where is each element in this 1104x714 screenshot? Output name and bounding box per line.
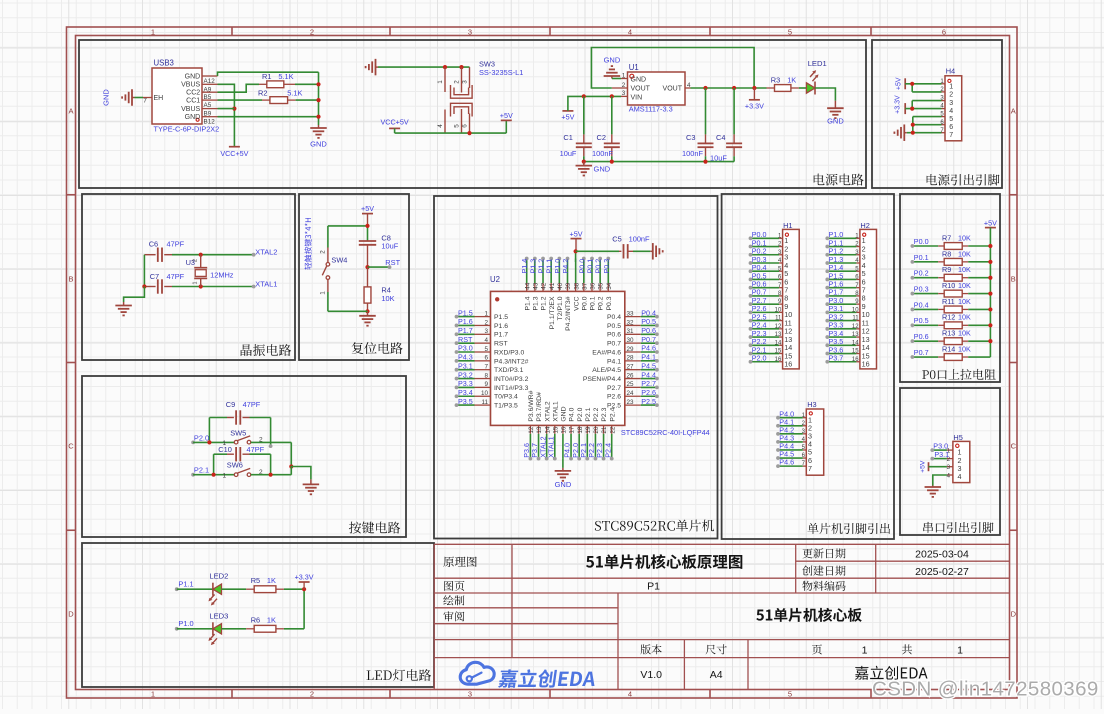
connector H5 — [947, 433, 970, 483]
svg-text:P1.7: P1.7 — [494, 332, 508, 339]
svg-text:P1.1: P1.1 — [178, 579, 193, 588]
svg-text:RST: RST — [458, 335, 473, 344]
svg-text:6: 6 — [942, 28, 946, 37]
svg-text:P0.5: P0.5 — [607, 323, 621, 330]
svg-text:R2: R2 — [258, 88, 267, 97]
switch SW3 SS-3235S-L1 — [437, 60, 523, 134]
svg-text:5: 5 — [454, 124, 461, 128]
svg-text:D: D — [68, 610, 74, 619]
svg-text:10K: 10K — [381, 294, 394, 303]
svg-text:12: 12 — [528, 426, 535, 434]
svg-text:1: 1 — [949, 83, 953, 90]
svg-text:B: B — [1011, 275, 1016, 284]
svg-text:P4.0: P4.0 — [569, 407, 576, 421]
ground GND (USB) — [310, 125, 327, 149]
svg-text:R1: R1 — [262, 72, 271, 81]
block title 串口引出引脚 — [923, 522, 993, 533]
svg-text:22: 22 — [609, 426, 616, 434]
svg-text:100nF: 100nF — [629, 234, 650, 243]
svg-text:VCC+5V: VCC+5V — [381, 118, 409, 127]
net label P3.1 (H5) — [930, 450, 949, 461]
connector USB3 TYPE-C-6P-DIP2X2 — [152, 59, 219, 134]
sheet title 51单片机核心板原理图 — [586, 554, 742, 569]
U2 bottom pins 12-22 — [528, 390, 616, 458]
svg-text:1: 1 — [222, 473, 226, 480]
svg-text:7: 7 — [808, 464, 812, 473]
svg-text:10K: 10K — [958, 249, 971, 258]
logo text 嘉立创EDA — [498, 669, 597, 688]
capacitor C2 100nF — [592, 96, 620, 161]
wire R2 to GND bus — [296, 99, 319, 101]
svg-text:P0.1: P0.1 — [590, 296, 597, 310]
wires/net labels H3 — [776, 409, 803, 468]
svg-text:33: 33 — [627, 310, 635, 317]
open end — [269, 444, 273, 448]
connector H4 — [940, 67, 961, 141]
wires/net labels H2 — [825, 230, 856, 364]
svg-text:3: 3 — [468, 28, 472, 37]
svg-text:GND: GND — [561, 406, 568, 421]
svg-text:4: 4 — [437, 124, 444, 128]
wire C10 right — [270, 454, 272, 475]
svg-text:CC1: CC1 — [186, 98, 200, 105]
svg-text:10K: 10K — [958, 329, 971, 338]
svg-text:D: D — [1011, 610, 1017, 619]
U2 left pins 1-11 — [457, 310, 529, 409]
resistor R8 10K — [911, 249, 993, 265]
block title 电源引出引脚 — [927, 174, 1000, 186]
svg-text:16: 16 — [784, 360, 792, 369]
svg-text:P0.5: P0.5 — [641, 317, 656, 326]
ground net flag GND (U1) — [604, 56, 621, 79]
svg-text:C3: C3 — [686, 133, 695, 142]
net label P1.0 — [175, 619, 194, 631]
connector H3 — [802, 400, 824, 475]
wire net VBUS (USB pin B9) — [218, 108, 235, 110]
svg-text:10K: 10K — [958, 265, 971, 274]
resistor R2 5.1K — [258, 88, 302, 103]
svg-text:VOUT: VOUT — [631, 85, 651, 92]
svg-text:P4.6: P4.6 — [779, 458, 794, 467]
junction — [316, 82, 320, 86]
capacitor C5 100nF — [576, 234, 651, 258]
svg-text:3: 3 — [484, 328, 488, 335]
power flag VCC+5V — [220, 147, 248, 158]
svg-text:47PF: 47PF — [243, 400, 261, 409]
svg-text:P4.2/INT3#: P4.2/INT3# — [565, 296, 572, 331]
svg-text:1: 1 — [151, 690, 155, 699]
svg-text:17: 17 — [569, 426, 576, 434]
svg-text:P1.0: P1.0 — [178, 619, 193, 628]
svg-text:6: 6 — [949, 124, 953, 131]
svg-text:+5V: +5V — [361, 204, 374, 213]
svg-text:RXD/P3.0: RXD/P3.0 — [494, 349, 524, 356]
svg-text:5: 5 — [949, 116, 953, 123]
svg-text:C7: C7 — [150, 272, 159, 281]
svg-text:A: A — [68, 107, 73, 116]
svg-text:18: 18 — [577, 426, 584, 434]
junction — [365, 265, 369, 269]
wire U2 GND pin16 — [562, 459, 564, 468]
switch SW4 — [320, 226, 348, 311]
U2 bottom net labels — [522, 436, 614, 460]
svg-text:4: 4 — [687, 82, 691, 89]
wire C6 to XTAL2 — [172, 254, 254, 256]
net label P2.0 — [191, 434, 209, 445]
svg-text:T0/P3.4: T0/P3.4 — [494, 394, 518, 401]
svg-text:+5V: +5V — [500, 111, 513, 120]
svg-text:1: 1 — [437, 80, 444, 84]
svg-text:P3.5: P3.5 — [458, 397, 473, 406]
block title 电源电路 — [814, 174, 864, 186]
power flag +3.3V (H4) — [895, 95, 906, 114]
label 原理图 — [443, 556, 476, 566]
label 审阅 — [443, 611, 464, 621]
svg-text:P0.2: P0.2 — [598, 296, 605, 310]
capacitor C9 47PF — [209, 400, 270, 425]
svg-text:RST: RST — [385, 258, 400, 267]
svg-text:7: 7 — [949, 132, 953, 139]
U2 top pins 44-34 — [524, 259, 613, 331]
label 版本 — [641, 644, 662, 654]
wire +5V to C8/SW4 — [367, 214, 369, 226]
svg-text:C2: C2 — [597, 133, 606, 142]
svg-text:+3.3V: +3.3V — [295, 573, 314, 582]
svg-text:42: 42 — [541, 282, 548, 290]
svg-text:P0.6: P0.6 — [607, 332, 621, 339]
block title 按键电路 — [349, 521, 400, 533]
svg-text:P0.6: P0.6 — [641, 326, 656, 335]
svg-text:2: 2 — [310, 690, 314, 699]
svg-text:XTAL1: XTAL1 — [255, 279, 277, 288]
svg-text:C: C — [68, 442, 74, 451]
power flag +5V (H5) — [919, 460, 947, 473]
sub-circuit block boxes — [79, 40, 1002, 687]
svg-text:4: 4 — [628, 690, 632, 699]
net label P3.0 (H5) — [930, 441, 948, 452]
wire crystal left leg — [143, 255, 145, 287]
wire LED3 to R6 — [222, 628, 247, 630]
capacitor C3 100nF — [682, 88, 714, 162]
svg-text:19: 19 — [585, 426, 592, 434]
svg-text:2: 2 — [192, 259, 198, 262]
svg-text:1: 1 — [862, 645, 868, 657]
connector H1 — [775, 221, 800, 369]
junction — [910, 107, 914, 111]
svg-text:XTAL1: XTAL1 — [552, 401, 559, 421]
svg-text:RST: RST — [494, 341, 508, 348]
svg-text:5: 5 — [484, 346, 488, 353]
svg-text:37: 37 — [581, 282, 588, 290]
svg-text:EH: EH — [154, 95, 164, 102]
svg-text:TXD/P3.1: TXD/P3.1 — [494, 367, 524, 374]
capacitor C6 47PF — [144, 239, 184, 262]
svg-text:P3.7/RD#: P3.7/RD# — [536, 392, 543, 422]
junction VBUS — [232, 107, 236, 111]
svg-text:23: 23 — [627, 399, 635, 406]
wire C9 left — [208, 418, 210, 443]
power flag +3.3V — [745, 88, 764, 110]
title block grid lines — [434, 544, 1009, 689]
svg-text:T1/P3.5: T1/P3.5 — [494, 403, 518, 410]
wire GND bus vertical — [318, 72, 320, 125]
label 尺寸 — [706, 644, 727, 654]
svg-text:INT0#/P3.2: INT0#/P3.2 — [494, 376, 529, 383]
svg-text:1: 1 — [192, 281, 198, 284]
svg-text:16: 16 — [561, 426, 568, 434]
switch SW6 — [222, 460, 262, 479]
svg-text:100nF: 100nF — [592, 149, 613, 158]
svg-text:25: 25 — [627, 381, 635, 388]
junction — [911, 131, 915, 135]
board title 51单片机核心板 — [756, 608, 862, 622]
svg-text:1: 1 — [151, 28, 155, 37]
svg-text:P2.0: P2.0 — [752, 354, 767, 363]
net label P2.1 — [191, 466, 209, 477]
connector H2 — [852, 221, 877, 369]
svg-text:9: 9 — [484, 381, 488, 388]
svg-text:P0.7: P0.7 — [607, 341, 621, 348]
svg-text:38: 38 — [573, 282, 580, 290]
svg-text:47PF: 47PF — [167, 239, 185, 248]
svg-text:28: 28 — [627, 355, 635, 362]
wire R5 right — [284, 588, 304, 590]
resistor R12 10K — [911, 313, 993, 329]
power flag +5V (VIN rail) — [561, 111, 574, 122]
capacitor C8 10uF — [359, 233, 399, 267]
svg-text:U2: U2 — [490, 275, 500, 284]
svg-text:P0.4: P0.4 — [914, 300, 929, 309]
wire P1.0 to LED3 — [177, 628, 213, 630]
svg-text:P4.3: P4.3 — [458, 353, 473, 362]
svg-text:VBUS: VBUS — [181, 106, 200, 113]
svg-text:7: 7 — [143, 98, 147, 105]
U2 left net labels — [455, 308, 473, 407]
resistor R7 10K — [911, 233, 993, 249]
svg-text:26: 26 — [627, 372, 635, 379]
ground (H5) — [925, 486, 942, 497]
svg-text:P0.3: P0.3 — [914, 284, 929, 293]
wire SW3 top — [378, 66, 470, 68]
svg-text:U1: U1 — [629, 63, 639, 72]
svg-text:+5V: +5V — [984, 218, 997, 227]
wire net VBUS (USB pin A9) — [218, 84, 235, 146]
power flag +5V (SW3 right) — [500, 111, 513, 120]
svg-text:P1.1/T2EX: P1.1/T2EX — [549, 296, 556, 329]
label 更新日期 — [802, 548, 845, 558]
wire net GND rail — [584, 161, 734, 163]
junction — [459, 65, 463, 69]
svg-text:GND: GND — [185, 114, 201, 121]
ground GND (C1) — [576, 162, 611, 176]
svg-text:+5V: +5V — [570, 229, 583, 238]
svg-text:10: 10 — [481, 390, 489, 397]
junction — [365, 309, 369, 313]
resistor R4 10K — [364, 267, 395, 311]
junction — [289, 464, 293, 468]
svg-text:P2.4: P2.4 — [609, 407, 616, 421]
svg-text:+5V: +5V — [895, 77, 902, 90]
resistor R1 5.1K — [259, 72, 295, 88]
svg-text:EA#/P4.6: EA#/P4.6 — [592, 349, 621, 356]
wire P2.0 to SW5 — [193, 441, 234, 443]
wire net CC1 to R2 — [218, 99, 263, 101]
wire H4 pin1/pin2 (+5V) — [905, 83, 941, 85]
svg-text:VCC: VCC — [573, 296, 580, 310]
svg-text:GND: GND — [631, 76, 647, 83]
svg-text:T2/P1.0: T2/P1.0 — [557, 296, 564, 320]
block title P0口上拉电阻 — [922, 369, 996, 380]
ground GND (LED1) — [827, 101, 844, 126]
svg-text:C6: C6 — [149, 239, 158, 248]
resistor R11 10K — [911, 297, 993, 313]
net label RST — [368, 258, 401, 269]
resistor R3 1K — [767, 76, 799, 92]
svg-text:10K: 10K — [958, 313, 971, 322]
capacitor C4 10uF — [710, 88, 742, 163]
LED LED3 — [206, 611, 228, 646]
svg-text:14: 14 — [544, 426, 551, 434]
junction — [732, 86, 736, 90]
wire H4 pin3/pin4 (+3.3V) — [912, 100, 941, 102]
svg-text:32: 32 — [627, 319, 635, 326]
wire C10 left — [213, 454, 215, 475]
wire R1 to GND bus — [295, 83, 319, 85]
junction — [212, 473, 216, 477]
svg-text:P2.5: P2.5 — [641, 397, 656, 406]
ground (crystal) — [115, 302, 132, 315]
svg-text:LED2: LED2 — [209, 572, 228, 581]
svg-text:STC89C52RC-40I-LQFP44: STC89C52RC-40I-LQFP44 — [621, 428, 710, 437]
junction — [142, 284, 146, 288]
svg-text:SW6: SW6 — [227, 460, 243, 469]
block title STC89C52RC单片机 — [595, 520, 714, 532]
svg-text:P0.3: P0.3 — [602, 259, 611, 274]
resistor R14 10K — [911, 344, 991, 360]
svg-text:41: 41 — [549, 282, 556, 290]
svg-text:R12: R12 — [942, 313, 955, 322]
svg-text:V1.0: V1.0 — [640, 669, 662, 681]
svg-text:AMS1117-3.3: AMS1117-3.3 — [629, 105, 673, 114]
svg-text:P0.4: P0.4 — [607, 314, 621, 321]
svg-text:2: 2 — [454, 80, 461, 84]
power flag +5V (H4) — [895, 77, 905, 90]
svg-text:+5V: +5V — [919, 460, 926, 473]
junction — [467, 131, 471, 135]
svg-text:P1: P1 — [647, 581, 660, 593]
svg-text:P1.6: P1.6 — [494, 323, 508, 330]
svg-text:P4.1: P4.1 — [607, 358, 621, 365]
svg-text:6: 6 — [462, 124, 469, 128]
svg-text:R3: R3 — [771, 76, 780, 85]
svg-text:6: 6 — [484, 355, 488, 362]
svg-text:ALE/P4.5: ALE/P4.5 — [592, 367, 621, 374]
svg-text:INT1#/P3.3: INT1#/P3.3 — [494, 385, 529, 392]
svg-text:CSDN @lin1472580369: CSDN @lin1472580369 — [872, 678, 1099, 701]
wire SW6 to bus — [251, 474, 291, 476]
LED LED2 — [206, 572, 228, 607]
svg-text:2: 2 — [949, 91, 953, 98]
svg-text:LED1: LED1 — [808, 59, 827, 68]
MCU U2 STC89C52RC body — [490, 275, 710, 437]
svg-text:P0.2: P0.2 — [914, 269, 929, 278]
svg-text:P1.4: P1.4 — [524, 296, 531, 310]
company 嘉立创EDA — [855, 666, 928, 680]
resistor R10 10K — [911, 281, 993, 297]
label 创建日期 — [802, 566, 845, 576]
svg-text:H5: H5 — [953, 433, 962, 442]
wire net +3.3V (VOUT rail) — [691, 87, 767, 89]
power flag VCC+5V (SW3) — [381, 118, 409, 129]
svg-text:P0.4: P0.4 — [641, 308, 656, 317]
svg-text:P4.5: P4.5 — [641, 361, 656, 370]
svg-text:GND: GND — [555, 480, 572, 489]
logo JLC EDA cloud — [460, 662, 597, 687]
svg-text:SW4: SW4 — [331, 256, 347, 265]
svg-text:5: 5 — [788, 690, 792, 699]
svg-text:3: 3 — [462, 80, 469, 84]
net label XTAL1 — [252, 279, 278, 288]
svg-text:47PF: 47PF — [247, 445, 265, 454]
junction — [269, 473, 273, 477]
svg-text:10K: 10K — [958, 344, 971, 353]
wire to ground (crystal) — [124, 287, 145, 303]
svg-text:B12: B12 — [204, 119, 216, 126]
svg-text:CC2: CC2 — [186, 90, 200, 97]
junction — [582, 160, 586, 164]
pin 7 stub (USB3 EH) — [143, 98, 152, 105]
wire +3.3V bus (LED) — [303, 589, 305, 629]
svg-text:P2.2: P2.2 — [593, 407, 600, 421]
svg-text:P3.1: P3.1 — [458, 361, 473, 370]
svg-text:2025-03-04: 2025-03-04 — [915, 549, 969, 561]
svg-text:P1.2: P1.2 — [541, 296, 548, 310]
svg-text:C: C — [1011, 442, 1017, 451]
svg-text:34: 34 — [606, 282, 613, 290]
wire SW4 bottom — [328, 310, 368, 312]
block title LED灯电路 — [367, 669, 432, 681]
wire P2.1 to SW6 — [193, 474, 234, 476]
svg-text:39: 39 — [565, 282, 572, 290]
svg-text:43: 43 — [532, 282, 539, 290]
resistor R9 10K — [911, 265, 993, 281]
junction — [610, 94, 614, 98]
svg-text:2: 2 — [484, 319, 488, 326]
svg-text:3: 3 — [622, 90, 626, 97]
svg-text:47PF: 47PF — [167, 272, 185, 281]
wire C7 to XTAL1 — [172, 286, 254, 288]
svg-text:1K: 1K — [787, 76, 796, 85]
svg-text:P3.0: P3.0 — [458, 344, 473, 353]
resistor R5 1K — [246, 576, 284, 593]
ground net flag (SW3) — [366, 59, 378, 76]
svg-text:GND: GND — [604, 56, 621, 65]
svg-text:P0.0: P0.0 — [914, 237, 929, 246]
svg-text:A4: A4 — [710, 669, 723, 681]
label 图页 — [444, 581, 464, 591]
wire C9 right — [270, 418, 272, 447]
svg-text:P3.7: P3.7 — [829, 354, 844, 363]
U2 right pins 33-23 — [583, 310, 657, 409]
svg-text:A: A — [1011, 107, 1016, 116]
svg-text:P3.6/WR#: P3.6/WR# — [528, 390, 535, 421]
svg-text:H3: H3 — [807, 400, 816, 409]
wire net GND (USB pin A12) — [218, 72, 319, 76]
svg-text:5.1K: 5.1K — [278, 72, 293, 81]
svg-text:GND: GND — [102, 89, 111, 106]
svg-text:R11: R11 — [942, 297, 955, 306]
svg-text:21: 21 — [601, 426, 608, 434]
